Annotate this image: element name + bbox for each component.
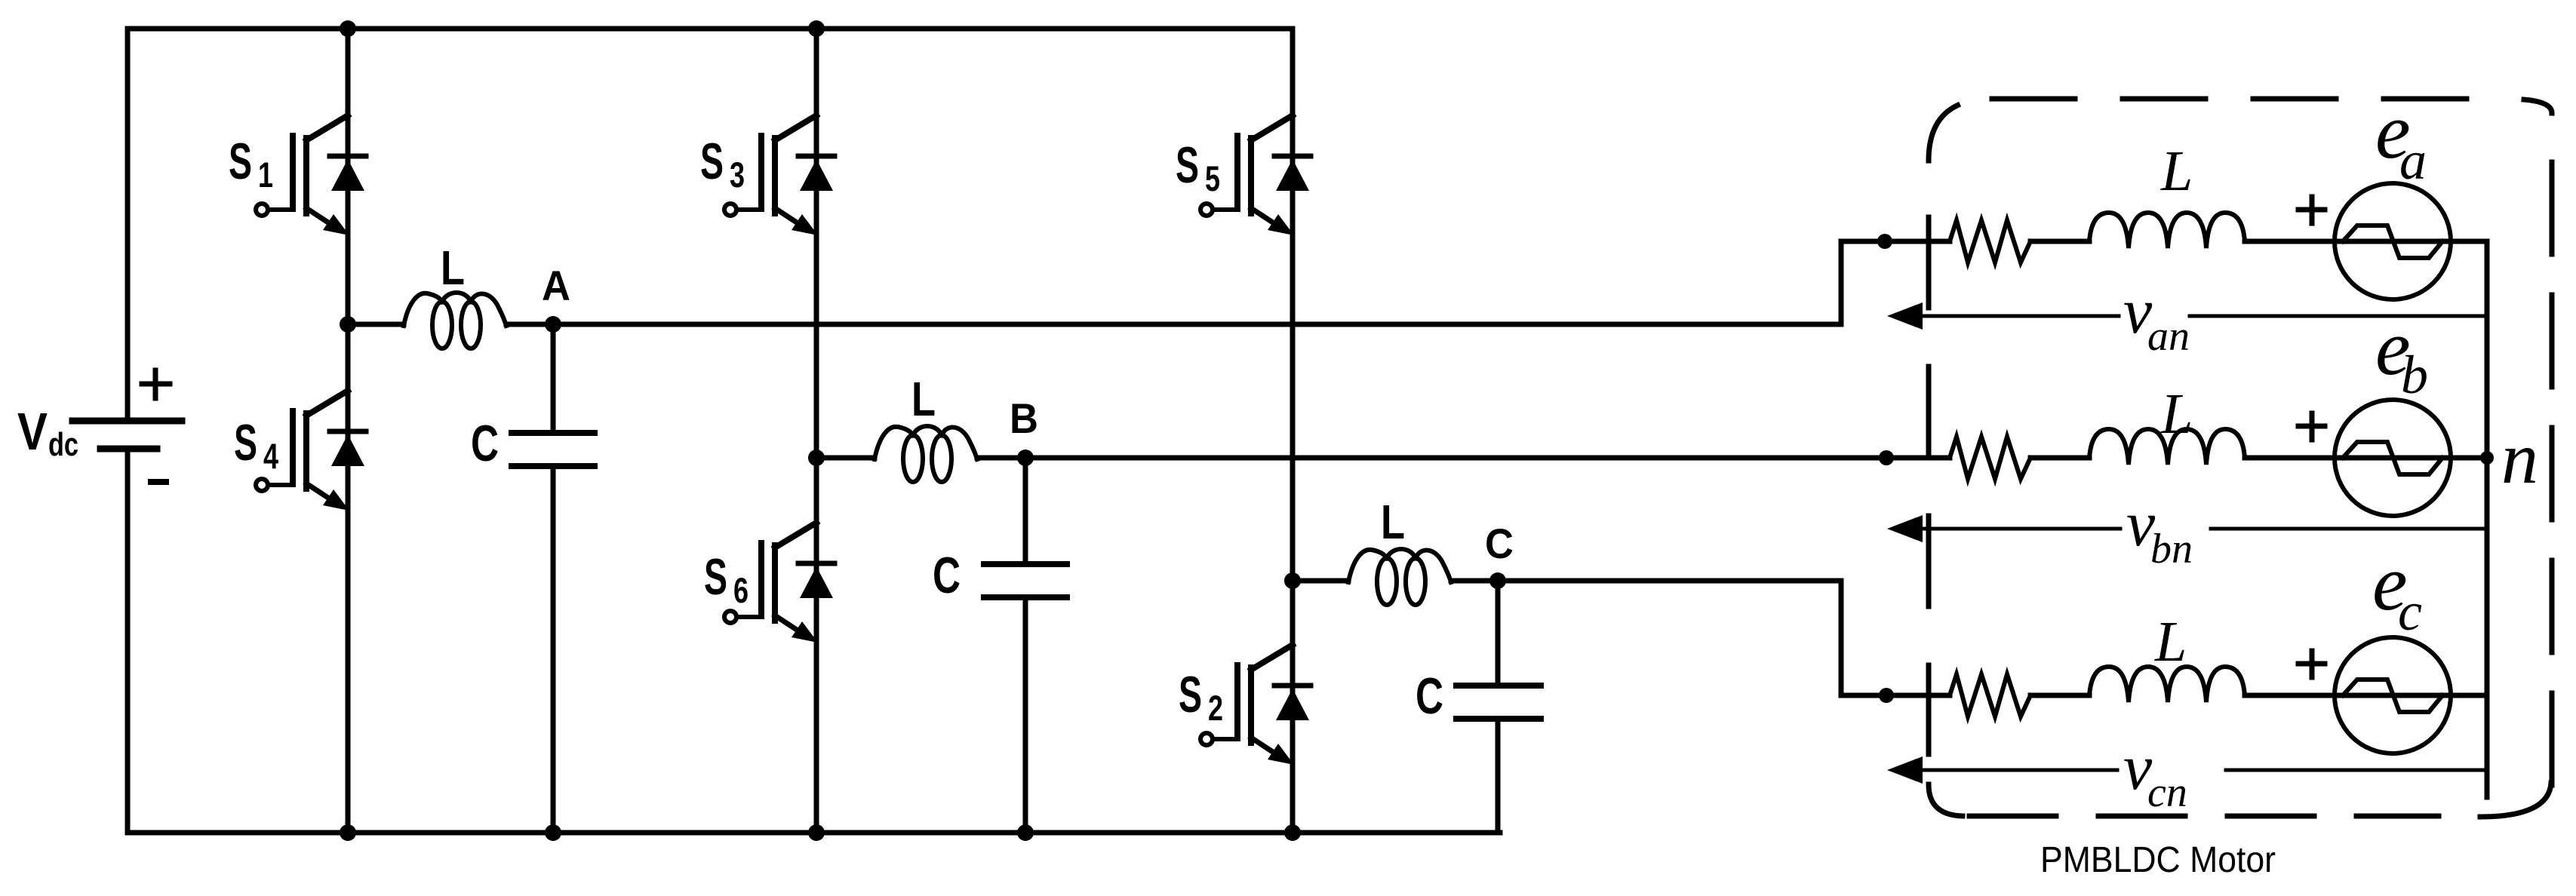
wire phase C from leg3 to coil [1293, 578, 1348, 584]
transistor S6 [724, 523, 835, 643]
node bottom leg2 [808, 824, 825, 841]
transistor S4 [256, 391, 366, 511]
svg-text:2: 2 [1208, 688, 1223, 728]
svg-text:1: 1 [258, 155, 273, 195]
node leg1 mid [340, 316, 356, 333]
node top leg1 [340, 20, 356, 37]
battery plus sign [142, 370, 170, 398]
arrow vcn [1887, 756, 1923, 784]
arrow vbn [1887, 515, 1923, 542]
svg-text:PMBLDC Motor: PMBLDC Motor [2040, 840, 2276, 880]
wire top DC bus [128, 26, 1293, 32]
back-EMF source ea [2335, 183, 2451, 299]
PMBLDC motor dashed box [1929, 99, 2552, 817]
node bottom leg1 [340, 824, 356, 841]
svg-text:L: L [2160, 382, 2193, 446]
node n [2480, 451, 2494, 465]
resistor phase a [1950, 220, 2030, 262]
plus sign phase c [2298, 651, 2325, 677]
inductor L phase a [2089, 213, 2245, 248]
motor phase c terminal node [1879, 688, 1894, 703]
transistor S1 [256, 115, 366, 235]
wire inverter leg 3 [1290, 29, 1296, 833]
svg-text:S: S [1179, 666, 1202, 723]
svg-text:C: C [1416, 667, 1443, 725]
wire phase A from leg1 to coil [348, 322, 404, 327]
resistor phase c [1950, 674, 2030, 716]
svg-text:L: L [1381, 495, 1405, 549]
svg-text:5: 5 [1205, 158, 1220, 198]
node A [545, 316, 561, 333]
svg-text:C: C [933, 547, 961, 604]
back-EMF source eb [2335, 400, 2451, 516]
wire resistor to coil a [2030, 239, 2089, 244]
svg-text:A: A [542, 262, 570, 309]
back-EMF source ec [2335, 637, 2451, 753]
battery Vdc [72, 421, 182, 449]
motor phase a terminal node [1877, 234, 1892, 249]
node B [1017, 450, 1034, 466]
wire coil c to n rail [2245, 693, 2487, 698]
svg-text:bn: bn [2150, 526, 2193, 572]
wire phase C long [1451, 581, 1950, 695]
wire phase A long [506, 241, 1950, 324]
wire resistor to coil b [2030, 456, 2089, 461]
node leg2 mid [808, 450, 825, 466]
svg-text:cn: cn [2147, 769, 2187, 816]
inductor L phase c [2089, 667, 2245, 702]
wire coil a to corner [2245, 239, 2487, 244]
capacitor C phase B [984, 458, 1067, 833]
wire inverter leg 2 [814, 29, 819, 833]
wire inverter leg 1 [346, 29, 351, 833]
svg-text:V: V [17, 402, 48, 461]
svg-text:4: 4 [263, 436, 278, 476]
svg-text:S: S [229, 133, 252, 190]
inductor L phase C filter [1348, 549, 1451, 605]
capacitor C phase A [512, 324, 595, 833]
node bottom leg3 [1284, 824, 1301, 841]
capacitor C phase C [1456, 581, 1541, 833]
svg-text:L: L [2160, 140, 2193, 203]
svg-text:b: b [2401, 345, 2428, 405]
wire phase B long [977, 456, 1950, 461]
wire right vertical n rail [2485, 241, 2490, 797]
node bottom capA [545, 824, 561, 841]
inductor L phase B filter [875, 426, 977, 482]
wire bottom bus [128, 830, 1500, 836]
node bottom capB [1017, 824, 1034, 841]
svg-text:L: L [441, 241, 465, 295]
inductor L phase b [2089, 429, 2245, 465]
svg-text:S: S [1176, 137, 1199, 194]
plus sign phase a [2298, 197, 2325, 223]
wire phase B from leg2 to coil [816, 456, 875, 461]
resistor phase b [1950, 437, 2030, 479]
svg-text:a: a [2399, 130, 2427, 191]
node C [1489, 572, 1506, 589]
svg-text:B: B [1010, 394, 1038, 442]
node leg3 mid [1284, 572, 1301, 589]
inductor L phase A filter [404, 293, 506, 348]
svg-text:n: n [2501, 418, 2538, 499]
plus sign phase b [2298, 413, 2325, 440]
transistor S2 [1200, 645, 1311, 765]
motor phase b terminal node [1879, 450, 1894, 465]
transistor S3 [724, 115, 835, 235]
svg-text:S: S [700, 133, 724, 190]
svg-text:an: an [2147, 313, 2190, 360]
svg-text:L: L [911, 372, 936, 426]
wire left rail lower [125, 452, 131, 833]
svg-text:3: 3 [730, 155, 745, 195]
svg-text:S: S [704, 548, 727, 606]
transistor S5 [1200, 115, 1311, 235]
wire resistor to coil c [2030, 693, 2089, 698]
svg-text:c: c [2398, 581, 2422, 642]
svg-text:6: 6 [733, 570, 749, 610]
wire coil b to n [2245, 456, 2487, 461]
svg-text:dc: dc [48, 426, 78, 463]
node top leg2 [808, 20, 825, 37]
svg-text:C: C [471, 415, 499, 472]
wire left rail upper [125, 29, 131, 418]
battery minus sign [151, 479, 166, 485]
svg-text:L: L [2154, 610, 2187, 674]
svg-text:C: C [1485, 520, 1514, 567]
svg-text:S: S [234, 414, 257, 471]
arrow van [1887, 302, 1923, 330]
